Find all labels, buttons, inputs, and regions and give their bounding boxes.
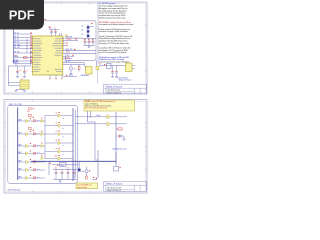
svg-text:SWDL_IF_Rev0.8: SWDL_IF_Rev0.8 xyxy=(107,183,122,185)
svg-text:VCCQ: VCCQ xyxy=(60,165,64,167)
red marks near label xyxy=(93,177,94,178)
svg-text:U9: U9 xyxy=(55,149,57,151)
bus vertical left xyxy=(13,26,15,63)
svg-text:VDD_SD: VDD_SD xyxy=(12,61,18,63)
resistor R7 xyxy=(78,66,80,70)
wire drop to lower circuit xyxy=(29,49,31,66)
svg-text:EN_1V8: EN_1V8 xyxy=(14,52,19,54)
svg-text:U6: U6 xyxy=(55,123,57,125)
capacitor C10 xyxy=(116,66,118,72)
svg-text:NC2: NC2 xyxy=(37,144,40,146)
level shifter group box xyxy=(8,105,78,183)
svg-text:SD_D1: SD_D1 xyxy=(14,36,19,38)
component U30 below bus xyxy=(60,163,67,167)
ground bottom cluster xyxy=(59,180,61,182)
svg-text:D1: D1 xyxy=(74,69,76,71)
svg-text:R15: R15 xyxy=(14,55,17,57)
wires under note xyxy=(87,111,89,122)
wire to title area xyxy=(97,70,99,83)
decoupling C1 C2 above U1 xyxy=(50,29,60,31)
svg-text:SD_CMD: SD_CMD xyxy=(14,44,20,46)
svg-text:LS0: LS0 xyxy=(62,117,65,119)
capacitor C7 xyxy=(24,66,26,71)
design note box xyxy=(84,100,135,111)
svg-text:must power up in ordered seque: must power up in ordered sequence per sp… xyxy=(99,23,135,26)
wire USB DP DM xyxy=(63,62,84,64)
resistor R30 xyxy=(118,128,122,130)
SD connector J2 xyxy=(20,80,29,89)
svg-text:SDIO_LS_CTRL: SDIO_LS_CTRL xyxy=(9,104,22,106)
wire short label row xyxy=(63,39,78,41)
svg-text:C7: C7 xyxy=(26,70,28,72)
svg-text:INT_N: INT_N xyxy=(69,75,73,77)
gate U21 xyxy=(107,122,111,126)
svg-text:C22: C22 xyxy=(55,168,58,170)
svg-text:SD_CLK 50MHz max: SD_CLK 50MHz max xyxy=(77,184,92,186)
svg-text:NC6: NC6 xyxy=(37,176,40,178)
right column gates xyxy=(45,115,58,117)
notes divider line xyxy=(97,2,99,64)
wire VDDIO to caps xyxy=(63,37,83,39)
svg-text:Signals routed on inner layers: Signals routed on inner layers only. xyxy=(99,16,126,19)
svg-text:SD_CLK: SD_CLK xyxy=(14,47,19,49)
capacitor bank C4 C5 C8 xyxy=(83,38,96,40)
svg-text:NC0: NC0 xyxy=(37,119,40,121)
svg-text:U5: U5 xyxy=(55,113,57,115)
svg-text:SWDL_IF_Rev0.8: SWDL_IF_Rev0.8 xyxy=(107,86,122,88)
svg-text:NC1: NC1 xyxy=(37,132,40,134)
wire inputs to gates xyxy=(75,116,107,118)
svg-text:U8: U8 xyxy=(55,140,57,142)
wire VSYS_3V3 xyxy=(63,52,96,54)
wire stub rows xyxy=(63,55,74,57)
left column gates xyxy=(26,119,29,122)
svg-text:PGOOD: PGOOD xyxy=(67,39,72,41)
bus pair right xyxy=(72,108,74,181)
wire mid bus right xyxy=(115,112,117,164)
sheet 2 border frame xyxy=(4,100,147,194)
svg-text:VSYS: VSYS xyxy=(66,52,70,54)
bus vertical sheet2 xyxy=(17,108,19,181)
resistor R31 xyxy=(86,173,88,177)
svg-text:NC3: NC3 xyxy=(37,152,40,154)
svg-text:LS3: LS3 xyxy=(62,145,65,147)
red dot on box line xyxy=(45,19,46,20)
wire long bus horizontal xyxy=(31,160,116,162)
svg-text:Q1: Q1 xyxy=(81,25,83,27)
gate U20 xyxy=(107,115,111,119)
ground C20 xyxy=(123,136,125,139)
ESD diode D1 xyxy=(69,67,72,70)
svg-text:high SDIO bus net: high SDIO bus net xyxy=(113,148,127,151)
svg-text:XT_IN: XT_IN xyxy=(14,60,18,62)
sheet1 bottom small part xyxy=(16,87,30,89)
ground rail caps xyxy=(84,45,95,47)
svg-text:VDD_3V3: VDD_3V3 xyxy=(66,37,72,39)
svg-text:R21: R21 xyxy=(27,111,30,113)
wire down right side xyxy=(115,152,117,166)
power flag VDD xyxy=(49,27,51,30)
svg-text:LS4: LS4 xyxy=(62,153,65,155)
svg-text:LS2: LS2 xyxy=(62,136,65,138)
sensor U2 xyxy=(126,63,133,72)
U1 bottom pin stubs xyxy=(49,75,51,78)
svg-text:U7: U7 xyxy=(55,131,57,133)
ground C9 C10 xyxy=(111,76,114,78)
labels on wire xyxy=(57,165,58,166)
small part P1 xyxy=(96,66,99,70)
svg-text:MODE0: MODE0 xyxy=(65,57,70,59)
resistor R15 inline xyxy=(24,57,28,59)
svg-text:C23: C23 xyxy=(67,168,70,170)
ferrite FB3 xyxy=(107,64,112,69)
svg-text:SD_D0: SD_D0 xyxy=(14,33,19,35)
sheet 1 title block table xyxy=(104,84,147,94)
group box power section xyxy=(40,21,96,61)
stub pins right xyxy=(63,42,66,44)
sheet 1 border frame xyxy=(4,2,147,94)
ground J2 xyxy=(15,89,18,91)
highlight label box xyxy=(76,183,98,189)
PDF badge xyxy=(0,0,44,30)
wire VBUS_5V0 xyxy=(63,50,96,52)
red parts left column xyxy=(28,115,31,117)
capacitor C9 xyxy=(112,66,114,72)
svg-text:bus IO. Do not install R12 by: bus IO. Do not install R12 by default. xyxy=(99,51,127,54)
svg-text:C2: C2 xyxy=(54,28,56,30)
svg-text:U10: U10 xyxy=(55,156,58,158)
capacitor bank C22-C25 xyxy=(53,168,77,170)
USB header J3 xyxy=(86,67,93,75)
svg-text:SD_D2: SD_D2 xyxy=(14,39,19,41)
wires host pins to U1 xyxy=(14,33,33,35)
wire to connector xyxy=(7,66,9,83)
wire from U1 bottom right xyxy=(63,76,77,78)
left column row wires xyxy=(18,120,26,122)
transistor Q5 cluster xyxy=(78,161,80,168)
svg-text:3V3: 3V3 xyxy=(99,64,102,66)
small part near U1 top right xyxy=(65,35,67,37)
svg-text:J2: J2 xyxy=(21,78,23,80)
svg-text:VBUS_5V0: VBUS_5V0 xyxy=(66,49,73,51)
svg-text:SD_D3: SD_D3 xyxy=(14,42,19,44)
capacitor C6 xyxy=(17,66,19,71)
capacitor C20 xyxy=(116,135,124,137)
svg-text:Q2: Q2 xyxy=(81,29,83,31)
svg-text:NC5: NC5 xyxy=(37,168,40,170)
ground C6 C7 xyxy=(16,76,19,78)
wire sensor rail xyxy=(99,65,126,67)
middle column gates xyxy=(41,120,44,123)
svg-text:C6: C6 xyxy=(19,70,21,72)
sheet 2 title block table xyxy=(104,181,147,191)
wire second horizontal xyxy=(52,164,78,166)
svg-text:D2: D2 xyxy=(82,34,84,36)
svg-text:LS1: LS1 xyxy=(62,127,65,129)
svg-text:SDIO interface: SDIO interface xyxy=(8,188,22,191)
svg-text:C1: C1 xyxy=(50,28,52,30)
wire jog vertical xyxy=(26,39,28,54)
svg-text:connector on page 2 of this sc: connector on page 2 of this schematic. xyxy=(99,30,129,33)
MCU U1 xyxy=(33,36,63,75)
ferrite FB2 xyxy=(16,89,25,91)
svg-text:U1: U1 xyxy=(47,71,49,73)
wire below box A corner xyxy=(96,60,98,66)
regulator chain U4 xyxy=(87,25,89,38)
svg-text:TP_EN: TP_EN xyxy=(65,55,69,57)
mid vertical wire xyxy=(44,116,46,159)
svg-text:PDF: PDF xyxy=(9,7,35,22)
svg-text:Test points TP1-TP6 on the bot: Test points TP1-TP6 on the bottom side xyxy=(99,42,129,45)
component X2 xyxy=(114,167,119,172)
wire rail lower left xyxy=(8,65,30,67)
svg-text:USB_DP: USB_DP xyxy=(65,61,70,63)
